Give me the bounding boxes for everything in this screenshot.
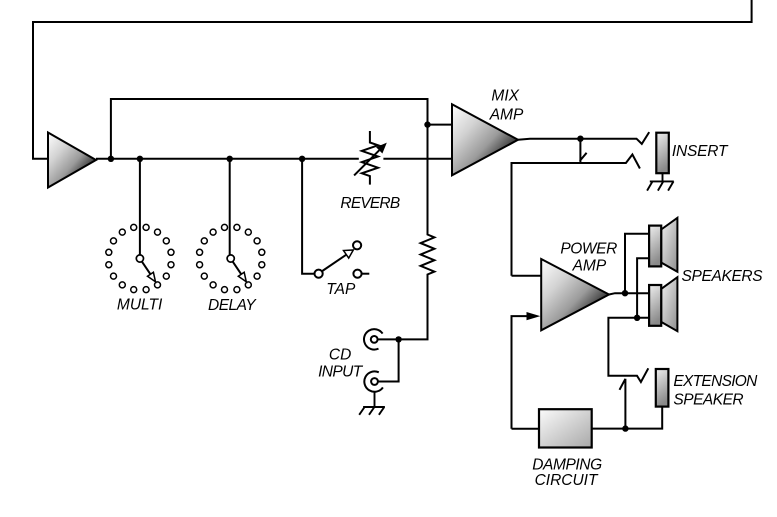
INSERT jack body (656, 133, 669, 174)
DELAY rotary switch contact dots (197, 224, 265, 292)
node: delay branch junction (227, 156, 233, 162)
ground: CD input chassis ground (359, 392, 385, 415)
wire: extension jack sleeve to damping node (625, 407, 662, 429)
wire: insert normalled switch blade (580, 139, 587, 163)
svg-text:EXTENSION: EXTENSION (673, 373, 758, 390)
svg-text:SPEAKERS: SPEAKERS (682, 268, 764, 285)
wire: CD jacks interconnect (378, 339, 399, 381)
op-amp U3: POWER AMP triangle (541, 259, 609, 330)
REVERB adjustment arrow (354, 150, 379, 175)
svg-text:SPEAKER: SPEAKER (673, 392, 743, 409)
MULTI rotary switch contact dots (106, 224, 174, 292)
MULTI rotary wiper arrow (142, 261, 151, 274)
DELAY rotary wiper arrow (233, 261, 242, 274)
DAMPING CIRCUIT box (539, 409, 592, 447)
svg-text:AMP: AMP (572, 257, 607, 274)
TAP switch pole contact (315, 270, 323, 278)
svg-text:INPUT: INPUT (318, 363, 364, 380)
svg-text:AMP: AMP (489, 106, 524, 123)
node: speaker return junction (634, 315, 640, 321)
wire: extension speaker switch riser with blade (620, 379, 626, 429)
wire: branch down to TAP switch (302, 159, 314, 274)
speaker SP1: top speaker (649, 218, 677, 272)
resistor R1: mix bus to CD input (401, 125, 434, 340)
CD INPUT RCA jack top (364, 329, 383, 349)
DELAY rotary wiper center (227, 255, 234, 262)
wire: damping circuit to power amp with arrow (512, 316, 528, 429)
wire: outer feedback loop from top-right edge to input amp (33, 0, 752, 159)
wire: insert return to power amp (512, 155, 640, 276)
wire: top speaker return (637, 258, 649, 318)
EXTENSION SPEAKER jack body (656, 369, 669, 407)
speaker SP2: bottom speaker (649, 277, 677, 331)
wire: mix amp output to insert jack (518, 132, 649, 144)
CD INPUT RCA jack bottom (364, 371, 383, 391)
node: mix amp upper input junction (424, 121, 430, 127)
node: insert normal junction (577, 136, 583, 142)
wire: branch down to DELAY control (229, 159, 231, 255)
wire: branch down to MULTI control (139, 159, 141, 255)
TAP switch right throw contact with stub (353, 270, 361, 278)
node: CD input junction (395, 336, 401, 342)
node: multi branch junction (137, 156, 143, 162)
svg-text:REVERB: REVERB (340, 195, 399, 212)
node: tap branch junction (299, 156, 305, 162)
svg-text:MIX: MIX (491, 88, 519, 105)
svg-text:TAP: TAP (326, 281, 356, 298)
wire: damping circuit leads (512, 428, 626, 430)
wire: to top speaker (625, 234, 649, 293)
svg-text:CD: CD (329, 347, 351, 364)
TAP switch lever arrow (322, 254, 347, 271)
node: amp output junction (108, 156, 114, 162)
svg-text:CIRCUIT: CIRCUIT (535, 472, 599, 489)
svg-text:DELAY: DELAY (208, 297, 257, 314)
resistor REVERB: variable resistor leads and zigzag (362, 131, 378, 185)
TAP switch upper throw contact (353, 241, 361, 249)
MULTI rotary wiper center (136, 255, 143, 262)
op-amp U2: MIX AMP triangle (452, 104, 518, 175)
wire: power amp output bus (609, 293, 649, 294)
ground: insert jack chassis ground (647, 173, 674, 190)
wire: bottom speaker return to extension contact (608, 318, 649, 382)
node: speaker junction top (622, 290, 628, 296)
node: damping output junction (622, 425, 628, 431)
wire: main signal bus (96, 158, 452, 160)
svg-text:POWER: POWER (560, 240, 617, 257)
svg-text:MULTI: MULTI (117, 297, 163, 314)
op-amp U1: input buffer amp triangle (48, 133, 96, 188)
svg-text:INSERT: INSERT (672, 143, 729, 160)
wire: dry signal loop to mix amp (111, 99, 452, 159)
